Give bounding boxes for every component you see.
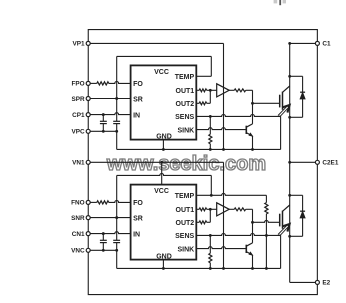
pin label TEMP (B) [175, 193, 195, 200]
svg-text:FNO: FNO [71, 200, 85, 207]
pin label GND (T) [156, 134, 172, 141]
wire gate row (B) [253, 220, 280, 222]
wire local rail (B) [117, 267, 281, 270]
resistor (shunt, B) [209, 235, 212, 268]
wire TEMP row (B) [196, 193, 266, 196]
pin label OUT2 (B) [176, 220, 195, 227]
svg-text:GND: GND [156, 134, 172, 141]
wire local rail (T) [117, 148, 281, 151]
wire SINK row (T) [196, 128, 246, 130]
pin label IN (T) [133, 112, 140, 119]
wire GND pin (B) [162, 260, 164, 269]
wire common row (B) [90, 249, 118, 252]
wire GND pin (T) [162, 140, 164, 150]
wire SENS row (T) [196, 115, 280, 118]
svg-text:CP1: CP1 [72, 112, 85, 119]
wire IN row (B) [90, 232, 130, 235]
svg-text:FPO: FPO [71, 81, 84, 88]
svg-text:FO: FO [133, 200, 143, 207]
cropped text fragment top [274, 0, 286, 5]
resistor (OUT2, B) [196, 221, 210, 224]
IGBT gate bar (B) [279, 214, 281, 227]
IGBT collector (T) [283, 86, 290, 92]
wire gate drop (T) [251, 90, 254, 104]
terminal CN1 [72, 231, 90, 238]
wire OUT2 to node (T) [209, 90, 211, 103]
wire gate-collector link (B) [252, 222, 254, 243]
wire common row (T) [90, 130, 118, 133]
pin label SR (T) [133, 96, 143, 103]
resistor (gate drive, B) [229, 208, 252, 211]
diode (freewheel, B) [288, 194, 305, 238]
wire IN row (T) [90, 113, 130, 116]
pin label SENS (B) [175, 233, 194, 240]
buffer amp (B) [217, 203, 230, 216]
wire supply drop (B) [223, 162, 225, 268]
wire SENS tie (B) [265, 234, 268, 270]
wire gate-collector link (T) [252, 103, 254, 124]
wire VCC riser (B) [161, 162, 163, 184]
wire C2E1 stub [288, 161, 315, 164]
pin label FO (T) [133, 81, 143, 88]
wire SR row (T) [90, 97, 130, 100]
svg-text:OUT1: OUT1 [176, 88, 195, 95]
terminal FPO [71, 81, 90, 88]
pin label SENS (T) [175, 114, 194, 121]
pin label FO (B) [133, 200, 143, 207]
wire common drop (B) [116, 250, 118, 268]
wire SR row (B) [90, 216, 130, 219]
op-amp driver IC U1 (T) [131, 65, 197, 139]
svg-text:SINK: SINK [177, 246, 194, 253]
resistor (TEMP-SENS, B) [265, 195, 268, 235]
IGBT emitter arrow (B) [278, 224, 290, 236]
wire TEMP loop right (B) [210, 175, 212, 195]
wire SENS row (B) [196, 233, 280, 236]
resistor (OUT2, T) [196, 102, 210, 105]
svg-text:IN: IN [133, 112, 140, 119]
resistor (fault output) + wire F (T) [90, 82, 130, 85]
wire BJT emitter (T) [252, 136, 254, 149]
svg-text:SR: SR [133, 215, 143, 222]
terminal SPR [71, 96, 90, 103]
svg-text:E2: E2 [322, 280, 330, 287]
buffer amp (T) [217, 84, 230, 97]
outer package border [88, 30, 317, 295]
svg-text:SINK: SINK [177, 127, 194, 134]
svg-text:TEMP: TEMP [175, 74, 195, 81]
pin label SINK (T) [177, 127, 194, 134]
IGBT body bar (T) [282, 92, 284, 110]
transistor (sink BJT, B) [246, 243, 252, 255]
capacitor (filter 2, T) [113, 99, 120, 132]
svg-text:OUT2: OUT2 [176, 101, 195, 108]
wire gate drop (B) [251, 209, 254, 223]
wire gate row (T) [253, 102, 280, 104]
transistor (sink BJT, T) [246, 124, 252, 136]
IGBT gate bar (T) [279, 95, 281, 108]
wire BJT emitter (B) [252, 255, 254, 268]
wire E2 stub [290, 281, 316, 283]
wire OUT2 to node (B) [209, 209, 211, 222]
svg-text:VP1: VP1 [73, 41, 86, 48]
wire TEMP loop left (T) [116, 56, 118, 98]
pin label GND (B) [156, 254, 172, 261]
diode (freewheel, T) [288, 75, 305, 119]
pin label OUT1 (B) [176, 207, 195, 214]
svg-text:SENS: SENS [175, 114, 194, 121]
svg-text:www.seekic.com: www.seekic.com [106, 153, 266, 175]
wire supply drop (T) [223, 43, 225, 149]
wire supply rail VP1 [90, 42, 223, 44]
svg-text:VN1: VN1 [72, 160, 85, 167]
terminal SNR [71, 215, 90, 222]
wire collector bus (C1 to E2) [289, 43, 291, 282]
capacitor (filter 2, B) [113, 218, 120, 251]
resistor (fault output) + wire F (B) [90, 201, 130, 204]
svg-text:OUT2: OUT2 [176, 220, 195, 227]
svg-text:CN1: CN1 [72, 231, 85, 238]
pin label OUT1 (T) [176, 88, 195, 95]
wire supply rail VN1 [90, 161, 223, 164]
svg-text:SNR: SNR [71, 215, 85, 222]
IGBT collector (B) [283, 205, 290, 211]
resistor (OUT1, B) [196, 208, 216, 211]
svg-text:SR: SR [133, 96, 143, 103]
svg-text:FO: FO [133, 81, 143, 88]
op-amp driver IC U2 (B) [131, 185, 197, 260]
wire TEMP loop top (B) [117, 174, 212, 176]
terminal VNC [71, 248, 90, 255]
watermark [106, 153, 266, 175]
IGBT body bar (B) [282, 211, 284, 229]
resistor (shunt, T) [209, 116, 212, 149]
pin label SINK (B) [177, 246, 194, 253]
wire TEMP loop right (T) [210, 56, 212, 76]
wire emitter riser (T) [279, 116, 281, 149]
terminal C1 [315, 41, 331, 48]
pin label TEMP (T) [175, 74, 195, 81]
terminal E2 [315, 280, 330, 287]
terminal VP1 [73, 41, 91, 48]
svg-text:C1: C1 [322, 41, 331, 48]
pin label IN (B) [133, 231, 140, 238]
svg-text:VCC: VCC [154, 188, 169, 195]
wire emitter riser (B) [279, 235, 281, 268]
svg-text:VCC: VCC [154, 69, 169, 76]
pin label VCC (B) [154, 188, 169, 195]
wire common drop (T) [116, 131, 118, 149]
IGBT emitter arrow (T) [278, 105, 290, 117]
terminal VPC [71, 129, 90, 136]
svg-text:VNC: VNC [71, 248, 85, 255]
svg-text:SENS: SENS [175, 233, 194, 240]
svg-text:C2E1: C2E1 [322, 160, 338, 167]
svg-text:IN: IN [133, 231, 140, 238]
resistor (gate drive, T) [229, 89, 252, 92]
terminal C2E1 [315, 160, 338, 167]
svg-text:TEMP: TEMP [175, 193, 195, 200]
terminal VN1 [72, 160, 90, 167]
svg-text:SPR: SPR [71, 96, 85, 103]
wire SINK row (B) [196, 247, 246, 249]
pin label VCC (T) [154, 69, 169, 76]
svg-text:VPC: VPC [71, 129, 85, 136]
wire TEMP row (T) [196, 75, 211, 77]
pin label OUT2 (T) [176, 101, 195, 108]
wire TEMP loop left (B) [116, 175, 118, 217]
svg-text:GND: GND [156, 254, 172, 261]
pin label SR (B) [133, 215, 143, 222]
capacitor (filter 1, T) [100, 115, 107, 132]
wire TEMP loop top (T) [117, 55, 212, 57]
capacitor (filter 1, B) [100, 234, 107, 251]
svg-text:OUT1: OUT1 [176, 207, 195, 214]
resistor (OUT1, T) [196, 89, 216, 92]
wire C1 stub [288, 42, 315, 45]
terminal FNO [71, 200, 90, 207]
terminal CP1 [72, 112, 90, 119]
